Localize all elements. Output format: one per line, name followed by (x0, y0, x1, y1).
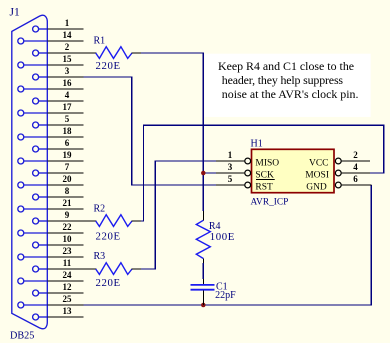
svg-text:header, they help suppress: header, they help suppress (222, 73, 344, 87)
H1 pin 2 (335, 158, 370, 164)
svg-text:18: 18 (63, 126, 73, 136)
svg-text:3: 3 (65, 66, 70, 76)
svg-text:DB25: DB25 (10, 331, 34, 342)
J1 pin 9 (33, 210, 84, 224)
J1 pin 22 (18, 222, 84, 236)
resistor R1 (47, 47, 141, 59)
svg-text:4: 4 (353, 162, 358, 172)
svg-text:17: 17 (63, 102, 73, 112)
J1 pin 4 (33, 90, 84, 104)
svg-text:VCC: VCC (309, 158, 329, 168)
svg-text:24: 24 (63, 270, 73, 280)
wire net MISO: R3 to header pin1 (141, 161, 216, 269)
svg-text:noise at the AVR's clock pin.: noise at the AVR's clock pin. (222, 87, 359, 101)
J1 pin 14 (18, 30, 84, 44)
svg-text:21: 21 (63, 198, 73, 208)
J1 pin 19 (18, 150, 84, 164)
J1 pin 21 (18, 198, 84, 212)
J1 pin 24 (18, 270, 84, 284)
J1 pin 16 (18, 78, 84, 92)
J1 pin 7 (33, 162, 84, 176)
svg-text:220E: 220E (96, 60, 121, 72)
svg-text:22: 22 (63, 222, 73, 232)
svg-text:6: 6 (353, 174, 358, 184)
J1 pin 2 (33, 42, 84, 56)
svg-text:H1: H1 (251, 139, 263, 150)
svg-text:100E: 100E (210, 231, 235, 243)
J1 pin 23 (18, 246, 84, 260)
J1 pin 18 (18, 126, 84, 140)
wire net GND: J1 pin25 along bottom up to header pin6 (84, 185, 372, 305)
svg-text:1: 1 (65, 18, 70, 28)
svg-text:15: 15 (63, 54, 73, 64)
wire net MOSI: R2 up over to header pin4 (141, 125, 384, 221)
J1 pin 12 (33, 282, 84, 296)
resistor R4 (196, 211, 210, 263)
svg-text:1: 1 (228, 150, 233, 160)
svg-text:MOSI: MOSI (305, 171, 329, 181)
J1 pin 11 (33, 258, 84, 272)
J1 pin 13 (33, 306, 84, 320)
header H1 AVR_ICP box (252, 149, 335, 192)
capacitor C1 (191, 279, 215, 305)
H1 pin 6 (335, 182, 371, 188)
wire net SCK: R1 to header pin3 and down to R4 (141, 53, 203, 211)
svg-text:12: 12 (63, 282, 73, 292)
svg-text:16: 16 (63, 78, 73, 88)
resistor R2 (47, 215, 141, 227)
svg-text:25: 25 (63, 294, 73, 304)
J1 pin 20 (18, 174, 84, 188)
svg-text:GND: GND (306, 182, 327, 192)
connector J1 DB25 outline (12, 15, 48, 329)
svg-text:220E: 220E (96, 230, 121, 242)
note text box (205, 54, 371, 117)
svg-text:6: 6 (65, 138, 70, 148)
svg-text:R2: R2 (94, 204, 106, 215)
svg-text:AVR_ICP: AVR_ICP (251, 198, 289, 208)
resistor R3 (47, 263, 141, 275)
H1 pin 1 (216, 158, 251, 164)
wire R4 to C1 (202, 263, 204, 279)
svg-text:2: 2 (353, 150, 358, 160)
junction node at SCK (201, 171, 206, 176)
svg-text:5: 5 (65, 114, 70, 124)
svg-text:11: 11 (63, 258, 72, 268)
J1 pin 5 (33, 114, 84, 128)
H1 pin 4 (335, 170, 370, 176)
svg-text:14: 14 (63, 30, 73, 40)
svg-text:5: 5 (228, 174, 233, 184)
pin name RST overbar (256, 179, 275, 181)
svg-text:23: 23 (63, 246, 73, 256)
svg-text:7: 7 (65, 162, 70, 172)
J1 pin 15 (18, 54, 84, 68)
J1 pin 17 (18, 102, 84, 116)
J1 pin 8 (33, 186, 84, 200)
svg-text:20: 20 (63, 174, 73, 184)
H1 pin 3 (216, 170, 251, 176)
svg-text:R1: R1 (94, 36, 106, 47)
svg-text:9: 9 (65, 210, 70, 220)
svg-text:R3: R3 (94, 251, 106, 262)
H1 pin 5 (216, 182, 251, 188)
svg-text:3: 3 (228, 162, 233, 172)
svg-text:J1: J1 (10, 7, 20, 19)
svg-text:8: 8 (65, 186, 70, 196)
junction node at C1/GND (201, 303, 206, 308)
svg-text:Keep R4 and C1 close to the: Keep R4 and C1 close to the (218, 59, 354, 73)
wire net RST: J1 pin3 to header pin5 (84, 77, 217, 185)
J1 pin 10 (33, 234, 84, 248)
svg-text:MISO: MISO (255, 158, 279, 168)
J1 pin 25 (18, 294, 84, 308)
svg-text:220E: 220E (96, 277, 121, 289)
svg-text:13: 13 (63, 306, 73, 316)
svg-text:19: 19 (63, 150, 73, 160)
wire SCK stub (203, 172, 216, 174)
svg-text:10: 10 (63, 234, 73, 244)
J1 pin 6 (33, 138, 84, 152)
J1 pin 1 (33, 18, 84, 32)
J1 pin 3 (33, 66, 84, 80)
svg-text:22pF: 22pF (215, 290, 236, 301)
svg-text:4: 4 (65, 90, 70, 100)
svg-text:2: 2 (65, 42, 70, 52)
svg-text:RST: RST (255, 182, 273, 192)
